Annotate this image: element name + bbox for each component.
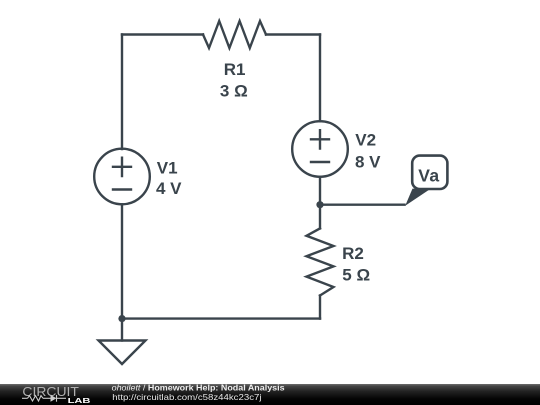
junction ground node dot [118, 315, 125, 322]
svg-text:V1: V1 [157, 159, 178, 178]
voltage source V2 [292, 121, 348, 177]
svg-text:3 Ω: 3 Ω [220, 82, 248, 101]
svg-text:R1: R1 [224, 60, 246, 79]
junction node a dot [316, 201, 323, 208]
wire right vertical down to V2 + terminal [319, 35, 321, 122]
wire node a to Va flag [320, 203, 405, 205]
wire node a down to R2 top [319, 205, 321, 229]
svg-text:LAB: LAB [68, 398, 91, 405]
svg-text:5 Ω: 5 Ω [342, 265, 370, 284]
wire top-left horizontal (node from V1+ to R1 left) [122, 33, 203, 35]
ground symbol [99, 341, 146, 365]
svg-text:V2: V2 [355, 131, 376, 150]
wire R2 bottom to bottom rail [319, 296, 321, 319]
node flag Va pointer [405, 189, 431, 206]
wire V2 bottom to node a [319, 177, 321, 205]
svg-text:8 V: 8 V [355, 153, 381, 172]
svg-text:http://circuitlab.com/c58z44kc: http://circuitlab.com/c58z44kc23c7j [112, 392, 261, 402]
svg-text:R2: R2 [342, 244, 364, 263]
footer bar [0, 384, 540, 405]
resistor R1 [203, 21, 266, 48]
footer logo squiggle [22, 395, 66, 402]
wire ground stub [121, 319, 123, 341]
svg-text:Va: Va [418, 166, 439, 186]
wire left vertical top to V1 + terminal [121, 35, 123, 150]
voltage source V1 [94, 149, 150, 205]
wire bottom rail [122, 317, 320, 319]
wire R1 right to top-right corner [266, 33, 320, 35]
wire V1 bottom to ground node [121, 204, 123, 318]
resistor R2 [307, 228, 334, 295]
svg-text:4 V: 4 V [156, 179, 182, 198]
node flag Va box [412, 156, 447, 189]
